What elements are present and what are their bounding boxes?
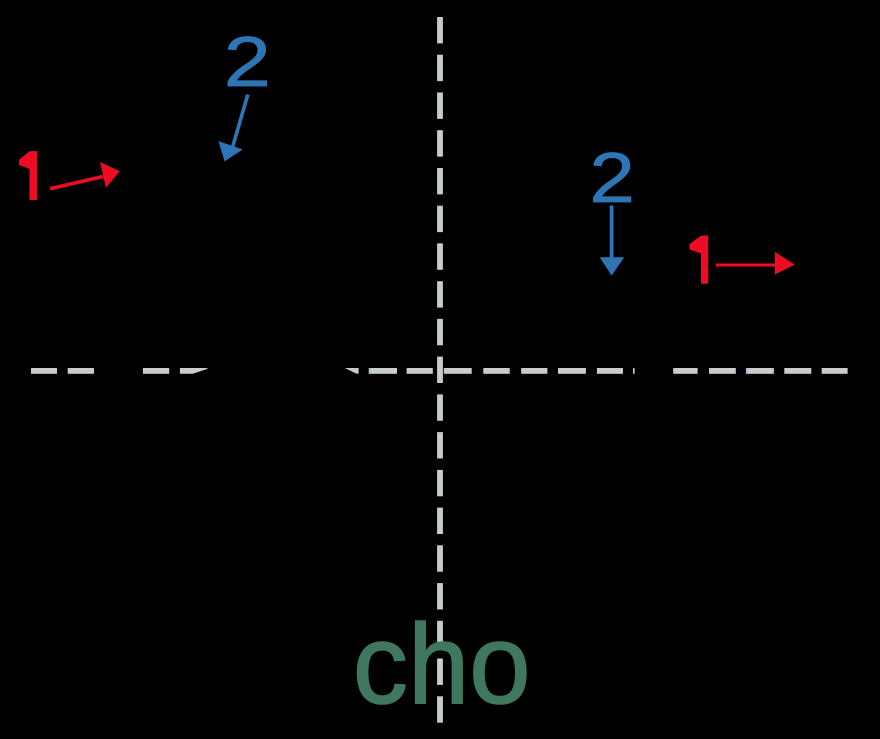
- label 2 (left, blue): [224, 24, 271, 102]
- svg-text:2: 2: [224, 24, 271, 102]
- arrow 2 (left, blue): [218, 95, 247, 162]
- wedge dash at right flank of black contour: [345, 368, 359, 374]
- svg-text:cho: cho: [353, 601, 531, 728]
- label 1 (left, red): [19, 151, 37, 200]
- arrow 1 (right, red): [716, 252, 795, 275]
- syllable label "cho": [353, 601, 531, 728]
- cut dash at left flank of black contour: [180, 368, 207, 374]
- horizontal dashed midline (gray), left segment dashes: [31, 368, 848, 374]
- arrow 2 (right, blue): [600, 206, 625, 276]
- label 2 (right, blue): [589, 139, 634, 217]
- vertical dashed line (gray): [437, 17, 443, 723]
- dash with blue side edges: [746, 368, 774, 374]
- blue curve slivers peeking at dash edges: [369, 368, 774, 374]
- sliver dash cut by narrow black band: [633, 368, 635, 374]
- arrow 1 (left, red): [50, 162, 120, 189]
- label 1 (right, red): [690, 235, 709, 283]
